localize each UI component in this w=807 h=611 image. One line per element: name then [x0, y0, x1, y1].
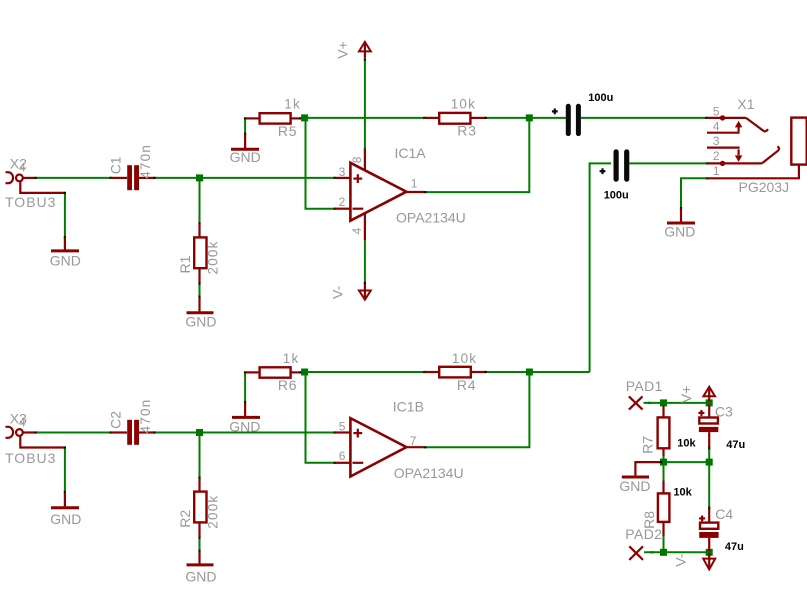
wire node A to IC1A pin3: [200, 177, 335, 179]
resistor R3 10k: [423, 113, 487, 124]
wire X3 tip to C2: [37, 432, 112, 434]
svg-text:2: 2: [339, 195, 346, 209]
wire C3 to node MID: [708, 449, 710, 462]
svg-text:C2: C2: [108, 411, 124, 429]
wire C6 left corner down to node OUT_B: [590, 163, 611, 372]
IC1A output stub pin1: [406, 191, 424, 193]
wire X2 sleeve down to GND: [64, 194, 66, 238]
svg-text:R7: R7: [640, 436, 656, 454]
svg-text:GND: GND: [619, 478, 650, 494]
junction node MID left: [660, 459, 667, 466]
svg-text:GND: GND: [229, 419, 260, 435]
wire X2 tip to C1: [37, 177, 112, 179]
pin end dot R5 gnd: [244, 133, 246, 135]
resistor R1 200k: [194, 222, 206, 285]
pin end dot X2 tip: [35, 177, 38, 179]
svg-text:GND: GND: [50, 511, 81, 527]
resistor R4 10k: [423, 367, 487, 378]
pin end dot PAD2: [651, 551, 654, 553]
wire node MID down to C4: [708, 464, 710, 508]
connector X2 (TOBU3 jack, left input A): [6, 172, 65, 193]
plus mark of C5: [552, 109, 558, 115]
wire node B to IC1B pin5: [200, 432, 335, 434]
pin end dot X3 tip: [35, 431, 38, 433]
wire node VM across to C4: [665, 551, 708, 553]
svg-text:R2: R2: [177, 510, 193, 528]
wire R4 to node OUT_B: [487, 371, 530, 373]
wire node FB_B to R4: [306, 371, 424, 373]
svg-text:3: 3: [713, 134, 720, 148]
wire node FB_A down to IC1A pin2: [306, 120, 335, 209]
junction node OUT_B: [526, 369, 533, 376]
ground symbol under R2: [187, 551, 214, 565]
op-amp IC1A triangle: [350, 163, 406, 221]
ground symbol under R1: [187, 297, 214, 313]
junction node A (input A): [196, 174, 203, 181]
resistor R5 1k: [244, 113, 302, 123]
svg-text:R6: R6: [278, 377, 298, 393]
svg-text:47u: 47u: [725, 541, 744, 553]
X1 pin1 lead to body: [707, 166, 799, 179]
svg-text:IC1A: IC1A: [395, 145, 427, 161]
wire R3 to node OUT_A: [487, 117, 530, 119]
pin end dot R1 gnd: [198, 296, 200, 299]
supply symbol V- (pad row): [703, 553, 715, 569]
svg-text:OPA2134U: OPA2134U: [394, 465, 464, 481]
wire V+ to IC1A pin8: [364, 60, 366, 148]
wire PAD2 to node VM: [644, 551, 662, 553]
pad PAD1 (X mark): [629, 396, 643, 409]
IC1A pin4 stub: [364, 214, 366, 241]
pin end dot X1 pin5: [705, 117, 708, 119]
supply symbol V+ (top): [359, 42, 371, 58]
svg-text:TOBU3: TOBU3: [5, 194, 56, 210]
svg-text:10k: 10k: [673, 486, 692, 498]
svg-text:C1: C1: [108, 156, 124, 174]
svg-text:470n: 470n: [138, 399, 153, 434]
plus mark of C6: [600, 168, 606, 174]
svg-text:4: 4: [350, 227, 364, 234]
resistor R7 10k: [658, 406, 670, 457]
ground symbol under X3: [51, 493, 79, 508]
pin end dot IC1B out: [424, 446, 427, 448]
ground symbol left of R6: [232, 403, 260, 418]
IC1A pin2 stub: [335, 208, 350, 210]
junction node VM left (R8 bottom): [660, 549, 667, 556]
X1 pin4 stub: [707, 132, 740, 134]
wire node MID down to R8: [663, 464, 665, 482]
wire C1 to node A: [156, 177, 200, 179]
svg-text:7: 7: [410, 434, 417, 448]
capacitor C2 470n: [110, 420, 157, 445]
svg-text:GND: GND: [230, 149, 261, 165]
X1 upper switch arrow (pin4): [735, 121, 743, 132]
svg-text:R4: R4: [457, 377, 477, 393]
capacitor C6 100u (second electrolytic, black): [616, 152, 627, 179]
resistor R2 200k: [194, 477, 206, 540]
supply symbol V- (below IC1A): [359, 284, 371, 300]
X1 pin5 stub: [707, 117, 746, 119]
svg-text:1: 1: [411, 177, 418, 191]
junction node FB_B (R6/R4/pin6): [301, 369, 308, 376]
wire X3 sleeve down to GND: [64, 449, 66, 493]
wire R2 to GND: [199, 539, 201, 551]
minus symbol inside IC1A: [353, 208, 364, 210]
X1 pin5 contact dot: [720, 115, 725, 120]
plus symbol inside IC1B: [353, 429, 362, 438]
wire node B down to R2: [199, 435, 201, 477]
svg-text:3: 3: [339, 165, 346, 179]
svg-text:PAD2: PAD2: [625, 526, 662, 542]
IC1B pin6 stub: [335, 462, 350, 464]
junction node FB_A (R5/R3/pin2): [301, 114, 308, 121]
wire node FB_B down to IC1B pin6: [306, 374, 335, 463]
X1 upper switch lever: [746, 118, 768, 131]
svg-text:10k: 10k: [452, 351, 477, 366]
IC1A pin3 stub: [335, 177, 350, 179]
pin end dot IC1A out: [424, 191, 427, 193]
capacitor C4 47u: [699, 508, 718, 551]
svg-text:4: 4: [19, 160, 26, 174]
junction node VP right (C3 top): [706, 399, 713, 406]
svg-text:5: 5: [713, 104, 720, 118]
svg-text:100u: 100u: [604, 189, 629, 201]
pin end dot X1 pin2: [705, 162, 708, 164]
wire node A down to R1: [199, 181, 201, 223]
ground symbol under X1 pin1: [667, 208, 695, 223]
wire PAD1 to node VP: [644, 402, 663, 404]
plus mark of C3: [698, 410, 704, 416]
capacitor C3 47u: [699, 405, 718, 450]
wire R5 left to GND corner: [244, 120, 246, 134]
pin end dot X1 pin1: [705, 177, 708, 179]
junction node VM right (C4 bottom): [706, 549, 713, 556]
resistor R6 1k: [244, 367, 302, 377]
wire R7 to node MID: [663, 456, 665, 462]
svg-text:4: 4: [713, 119, 720, 133]
IC1B pin5 stub: [335, 431, 350, 433]
svg-text:GND: GND: [664, 224, 695, 240]
ground symbol at node MID: [622, 462, 661, 477]
svg-text:8: 8: [350, 156, 364, 163]
pin end dot GND under X3: [64, 491, 66, 493]
svg-text:V+: V+: [334, 41, 350, 59]
X1 pin2 stub: [707, 162, 762, 164]
connector X3 (TOBU3 jack, left input B): [6, 427, 65, 448]
svg-text:470n: 470n: [138, 144, 153, 179]
pin end dot PAD1: [648, 402, 651, 404]
pad PAD2 (X mark): [629, 546, 643, 560]
svg-text:GND: GND: [185, 568, 216, 584]
wire R8 to node VM: [663, 536, 665, 552]
svg-text:6: 6: [339, 449, 346, 463]
wire C2 to node B: [156, 432, 200, 434]
ground symbol left of R5: [231, 134, 259, 149]
wire C6 to X1 pin2: [629, 162, 707, 164]
wire R6 left to GND corner: [244, 374, 246, 402]
wire node VP down to R7: [663, 405, 665, 409]
pin end dot IC1B pin6: [334, 462, 336, 464]
X1 lower switch arrow (pin2): [735, 149, 743, 162]
svg-text:R5: R5: [278, 123, 298, 139]
pin end dot GND (MID): [660, 461, 662, 463]
svg-text:200k: 200k: [206, 495, 221, 529]
svg-text:V-: V-: [673, 553, 689, 567]
pin end dot IC1A pin3: [334, 177, 336, 179]
IC1B output stub pin7: [406, 446, 424, 448]
pin end dot X3 sleeve: [64, 446, 66, 448]
IC1A pin8 stub: [364, 148, 366, 170]
X1 jack body rectangle: [791, 118, 806, 165]
X1 lower switch lever: [762, 146, 779, 163]
svg-text:R1: R1: [177, 255, 193, 273]
capacitor C5 100u (top electrolytic, black): [568, 106, 578, 133]
supply symbol V+ (pad row): [703, 387, 715, 402]
junction node OUT_A: [526, 114, 533, 121]
svg-text:GND: GND: [185, 313, 216, 329]
svg-text:10k: 10k: [451, 97, 476, 112]
wire R1 to GND: [199, 285, 201, 297]
svg-text:200k: 200k: [206, 240, 221, 274]
pin end dot C4 top: [708, 507, 710, 509]
resistor R8 10k: [658, 481, 670, 537]
pin end dot V+: [364, 58, 366, 60]
svg-text:R3: R3: [457, 123, 477, 139]
ground symbol under X2: [51, 238, 79, 251]
X1 pin3 stub: [707, 147, 740, 149]
svg-text:5: 5: [339, 419, 346, 433]
X1 pin2 contact dot: [720, 161, 725, 166]
svg-text:2: 2: [713, 149, 720, 163]
pin end dot IC1A pin2: [334, 208, 336, 210]
svg-text:1k: 1k: [284, 97, 301, 112]
svg-text:V-: V-: [330, 285, 346, 299]
capacitor C1 470n: [110, 165, 157, 190]
op-amp IC1B triangle: [350, 418, 406, 476]
junction node B (input B): [196, 429, 203, 436]
plus symbol inside IC1A: [353, 174, 362, 183]
svg-text:IC1B: IC1B: [393, 399, 424, 415]
svg-text:V+: V+: [678, 386, 694, 404]
pin end dot V-: [364, 282, 366, 284]
svg-text:X1: X1: [737, 96, 754, 112]
svg-text:C4: C4: [715, 506, 733, 522]
wire node FB_A to R3: [306, 117, 424, 119]
svg-text:TOBU3: TOBU3: [5, 450, 56, 466]
wire C5 to X1 pin5: [581, 117, 707, 119]
svg-text:OPA2134U: OPA2134U: [396, 210, 466, 226]
svg-text:1k: 1k: [283, 351, 300, 366]
pin end dot X2 sleeve: [64, 192, 66, 194]
wire node OUT_B down to IC1B output: [426, 374, 530, 448]
svg-text:PG203J: PG203J: [739, 179, 790, 195]
wire node VP across to C3: [665, 402, 708, 404]
pin end dot R6 gnd: [244, 401, 246, 403]
plus mark of C4: [699, 516, 705, 522]
pin end dot IC1B pin5: [334, 431, 336, 433]
wire node OUT_A to C5: [531, 117, 566, 119]
minus symbol inside IC1B: [353, 462, 364, 464]
junction node VP left (R7 top): [660, 399, 667, 406]
wire node OUT_B to C6 riser: [531, 371, 590, 373]
svg-text:100u: 100u: [588, 92, 613, 104]
wire node OUT_A down to IC1A output: [426, 120, 530, 193]
svg-text:PAD1: PAD1: [626, 378, 663, 394]
svg-text:4: 4: [19, 415, 26, 429]
wire IC1A pin4 to V-: [364, 240, 366, 283]
pin end dot GND under X2: [64, 236, 66, 238]
pin end dot GND (X1): [680, 207, 682, 209]
junction node MID right: [706, 459, 713, 466]
svg-text:1: 1: [713, 164, 720, 178]
wire X1 pin1 to GND: [681, 178, 707, 207]
pin end dot R2 gnd: [198, 550, 200, 553]
svg-text:GND: GND: [50, 253, 81, 269]
svg-text:10k: 10k: [677, 437, 696, 449]
svg-text:47u: 47u: [726, 439, 745, 451]
svg-text:C3: C3: [715, 404, 733, 420]
wire node MID across: [665, 461, 708, 463]
